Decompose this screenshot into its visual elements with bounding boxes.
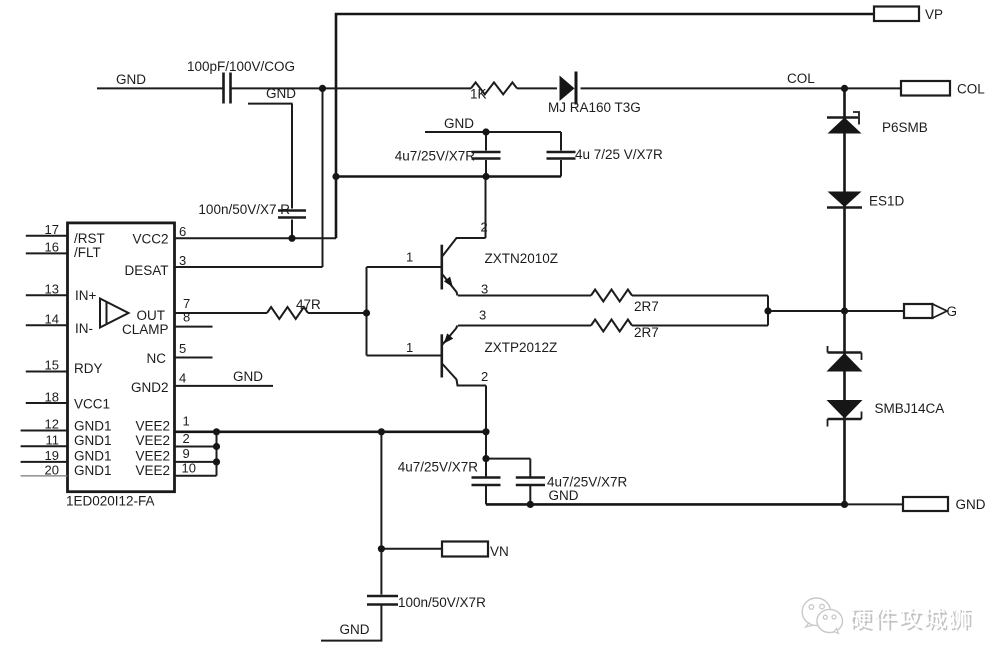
- svg-text:SMBJ14CA: SMBJ14CA: [875, 401, 945, 416]
- svg-text:3: 3: [481, 282, 488, 297]
- svg-text:2: 2: [183, 431, 190, 446]
- svg-text:ZXTP2012Z: ZXTP2012Z: [485, 340, 558, 355]
- svg-text:VEE2: VEE2: [135, 463, 170, 478]
- svg-text:2: 2: [481, 369, 488, 384]
- svg-text:OUT: OUT: [137, 308, 166, 323]
- svg-text:IN-: IN-: [75, 321, 93, 336]
- svg-text:GND1: GND1: [74, 449, 112, 464]
- svg-text:GND1: GND1: [74, 463, 112, 478]
- svg-text:GND: GND: [549, 488, 579, 503]
- svg-text:1: 1: [183, 414, 190, 429]
- svg-text:4: 4: [179, 371, 186, 386]
- svg-text:6: 6: [179, 224, 186, 239]
- svg-text:3: 3: [479, 308, 486, 323]
- svg-text:COL: COL: [787, 71, 815, 86]
- svg-text:GND: GND: [233, 369, 263, 384]
- svg-text:2R7: 2R7: [634, 325, 659, 340]
- svg-text:5: 5: [179, 341, 186, 356]
- svg-text:VCC1: VCC1: [74, 397, 110, 412]
- svg-text:20: 20: [45, 462, 59, 477]
- svg-text:VEE2: VEE2: [135, 433, 170, 448]
- svg-text:GND1: GND1: [74, 419, 112, 434]
- svg-text:MJ RA160 T3G: MJ RA160 T3G: [548, 100, 641, 115]
- svg-text:4u 7/25 V/X7R: 4u 7/25 V/X7R: [575, 147, 663, 162]
- svg-text:GND: GND: [116, 72, 146, 87]
- svg-text:VP: VP: [925, 7, 943, 22]
- svg-text:4u7/25V/X7R: 4u7/25V/X7R: [395, 149, 476, 164]
- svg-text:GND: GND: [266, 86, 296, 101]
- svg-text:9: 9: [183, 446, 190, 461]
- svg-text:1K: 1K: [470, 87, 487, 102]
- svg-text:1: 1: [406, 250, 413, 265]
- svg-text:RDY: RDY: [74, 361, 103, 376]
- svg-text:15: 15: [45, 358, 59, 373]
- svg-text:2: 2: [481, 220, 488, 235]
- svg-text:16: 16: [45, 240, 59, 255]
- svg-text:8: 8: [183, 310, 190, 325]
- svg-text:1ED020I12-FA: 1ED020I12-FA: [66, 494, 155, 509]
- svg-text:10: 10: [182, 461, 196, 476]
- svg-text:GND: GND: [340, 622, 370, 637]
- svg-text:12: 12: [45, 417, 59, 432]
- svg-text:CLAMP: CLAMP: [122, 322, 169, 337]
- svg-text:1: 1: [406, 340, 413, 355]
- svg-text:ES1D: ES1D: [869, 194, 905, 209]
- svg-text:100pF/100V/COG: 100pF/100V/COG: [187, 59, 295, 74]
- svg-text:3: 3: [179, 253, 186, 268]
- svg-text:17: 17: [45, 222, 59, 237]
- svg-text:100n/50V/X7 R: 100n/50V/X7 R: [198, 202, 290, 217]
- svg-text:P6SMB: P6SMB: [882, 120, 928, 135]
- svg-text:18: 18: [45, 390, 59, 405]
- svg-text:11: 11: [46, 432, 60, 447]
- svg-text:NC: NC: [147, 351, 167, 366]
- svg-text:VEE2: VEE2: [135, 419, 170, 434]
- svg-text:13: 13: [45, 282, 59, 297]
- svg-text:GND1: GND1: [74, 433, 112, 448]
- svg-text:/RST: /RST: [74, 231, 105, 246]
- svg-text:100n/50V/X7R: 100n/50V/X7R: [398, 595, 486, 610]
- svg-text:DESAT: DESAT: [124, 263, 168, 278]
- svg-text:ZXTN2010Z: ZXTN2010Z: [485, 251, 559, 266]
- svg-text:COL: COL: [957, 82, 985, 97]
- svg-text:G: G: [947, 304, 958, 319]
- svg-text:2R7: 2R7: [634, 299, 659, 314]
- svg-text:VEE2: VEE2: [135, 449, 170, 464]
- svg-text:47R: 47R: [296, 297, 321, 312]
- svg-text:4u7/25V/X7R: 4u7/25V/X7R: [398, 460, 479, 475]
- svg-text:VN: VN: [490, 544, 509, 559]
- svg-text:GND2: GND2: [131, 380, 169, 395]
- svg-text:19: 19: [45, 448, 59, 463]
- svg-text:GND: GND: [956, 497, 986, 512]
- svg-text:IN+: IN+: [75, 288, 97, 303]
- svg-text:VCC2: VCC2: [132, 232, 168, 247]
- svg-text:14: 14: [45, 312, 59, 327]
- svg-text:/FLT: /FLT: [74, 245, 101, 260]
- svg-text:GND: GND: [444, 116, 474, 131]
